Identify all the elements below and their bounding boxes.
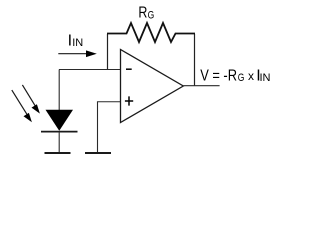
svg-text:IN: IN	[72, 37, 83, 49]
svg-text:R: R	[138, 5, 147, 22]
svg-text:x: x	[248, 69, 254, 83]
svg-text:V = -R: V = -R	[200, 67, 237, 84]
svg-text:G: G	[148, 9, 155, 21]
svg-text:G: G	[238, 72, 245, 84]
svg-text:IN: IN	[260, 72, 271, 84]
